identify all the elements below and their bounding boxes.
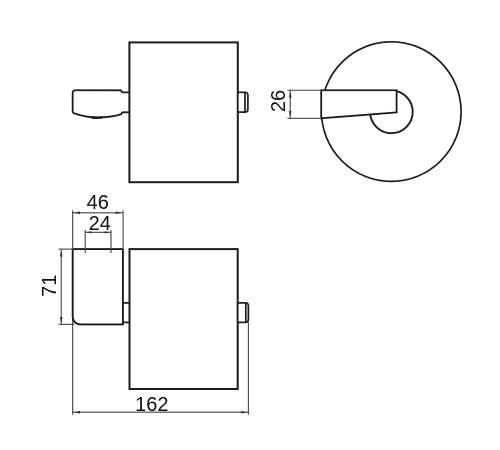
svg-text:71: 71 [39, 275, 61, 297]
svg-text:46: 46 [87, 192, 109, 214]
svg-text:26: 26 [268, 90, 290, 112]
svg-text:162: 162 [135, 394, 168, 416]
svg-text:24: 24 [89, 213, 111, 235]
